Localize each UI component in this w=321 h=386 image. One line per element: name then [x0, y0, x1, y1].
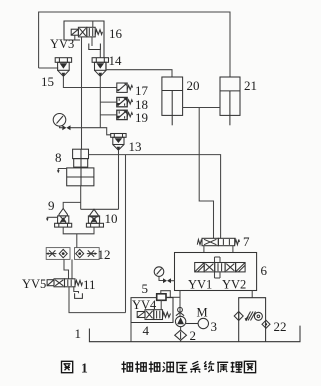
motor shaft — [186, 323, 198, 325]
box around valve 4 — [131, 298, 173, 323]
throttle-check bridge 12 — [46, 248, 99, 260]
svg-text:YV1: YV1 — [188, 278, 212, 292]
tank symbol t11 — [75, 293, 83, 298]
wire YV5 return riser — [125, 155, 127, 313]
svg-text:15: 15 — [41, 74, 54, 89]
wire valves 9-10 bottom rail — [63, 227, 94, 234]
svg-text:3: 3 — [211, 319, 218, 334]
wire cylinders head-side rail — [183, 107, 220, 109]
svg-text:M: M — [197, 306, 208, 320]
svg-text:6: 6 — [261, 263, 268, 278]
wire bridge to valve11 right wall — [71, 259, 73, 278]
wire main line A — [89, 155, 221, 239]
relief valve 17 — [117, 83, 133, 92]
cartridge valve 14 — [92, 58, 108, 77]
svg-text:19: 19 — [135, 110, 148, 125]
svg-text:13: 13 — [129, 139, 142, 154]
wire rail to valve7 — [199, 108, 213, 239]
svg-text:17: 17 — [135, 83, 149, 98]
filter22 check valve — [262, 320, 270, 328]
cartridge valve 15 — [55, 58, 71, 77]
svg-text:22: 22 — [274, 319, 287, 334]
wire pump riser — [179, 291, 181, 317]
cartridge valve 9 — [55, 209, 72, 228]
svg-text:5: 5 — [142, 281, 149, 296]
wire valve15 left feed — [39, 67, 59, 69]
pressure gauge G1 — [53, 114, 66, 127]
relief valve 19 — [117, 110, 133, 119]
cartridge valve 10 — [86, 209, 103, 227]
wire pump suction — [180, 327, 182, 330]
wire bridge feed — [76, 234, 78, 248]
filter unit 22 frame — [239, 298, 266, 342]
pilot box around valve 16 — [64, 21, 104, 58]
svg-text:1: 1 — [81, 361, 88, 376]
wire valve7 to box ports — [203, 246, 205, 253]
directional valve 7 — [197, 238, 239, 245]
check valve right — [76, 249, 84, 257]
wire valve16 top stub — [92, 21, 94, 27]
wire box4 drain to tank — [130, 323, 132, 342]
wire valve9 drain hook — [46, 217, 57, 221]
wire gauge2 stub — [159, 276, 163, 280]
manifold box 6 — [175, 253, 257, 291]
svg-text:14: 14 — [109, 53, 123, 68]
wire gauge line to valve13 — [71, 128, 111, 135]
wire valve19 stub — [100, 114, 117, 116]
tank symbol t16 — [89, 44, 101, 50]
svg-text:10: 10 — [105, 211, 118, 226]
intensifier 8 — [67, 149, 94, 186]
filter 2 — [175, 330, 187, 340]
wire valves 9-10 top rail — [81, 208, 119, 210]
filter22 indicator — [254, 312, 262, 320]
wire cyl20 rod-side port — [106, 62, 172, 77]
solenoid valve 6 — [195, 263, 245, 272]
svg-text:YV3: YV3 — [50, 37, 74, 51]
svg-text:8: 8 — [55, 150, 62, 165]
wire valve6 top stubs — [214, 257, 216, 263]
relief valve 18 — [117, 97, 133, 106]
wire box6 to filter22 — [251, 291, 253, 298]
svg-text:16: 16 — [109, 26, 123, 41]
wire valve13 stem down — [118, 150, 120, 209]
shutoff valve b1 — [62, 125, 70, 130]
wire valve14 out down — [99, 76, 101, 127]
wire intensifier bottom line — [80, 186, 82, 210]
solenoid valve U16 — [71, 27, 102, 37]
wire gauge stub — [60, 126, 63, 128]
orifice right — [87, 250, 98, 256]
wire valve15 out — [63, 76, 116, 87]
wire filter to tank — [180, 340, 182, 341]
wire relay to valve4 — [160, 300, 162, 309]
svg-text:1: 1 — [75, 326, 82, 341]
wire comp5 branch — [166, 296, 180, 298]
wire comp5 pilot loop — [161, 291, 171, 298]
orifice left — [46, 250, 57, 256]
wire valve18 stub — [100, 101, 117, 103]
svg-text:YV5: YV5 — [22, 277, 46, 291]
wire valve11 drain stub — [74, 287, 79, 293]
caption — [62, 361, 256, 372]
wire valve16 T drain stub — [91, 37, 93, 46]
cylinder 21 — [220, 77, 240, 125]
shutoff valve b2 — [163, 278, 171, 283]
svg-text:9: 9 — [48, 198, 55, 213]
wire to box6 — [171, 280, 175, 282]
filter22 arrows — [245, 312, 256, 322]
solenoid valve 4 YV4 — [137, 310, 170, 320]
wire intensifier drain hook — [57, 169, 67, 174]
svg-text:20: 20 — [187, 78, 200, 93]
svg-text:7: 7 — [243, 234, 250, 249]
wire top feed line — [39, 12, 230, 77]
wire valve6 bottom stubs — [214, 272, 216, 278]
wire valve11 out down — [69, 287, 126, 313]
wire valve16 A line down to intensifier — [81, 37, 83, 149]
wire valve14 pilot up — [99, 50, 101, 58]
cylinder 20 — [162, 77, 183, 125]
svg-text:YV4: YV4 — [132, 298, 157, 312]
pressure gauge G2 — [154, 267, 164, 277]
check valve left — [59, 249, 67, 257]
svg-text:21: 21 — [244, 78, 257, 93]
svg-text:11: 11 — [83, 277, 96, 292]
tank 1 — [89, 326, 300, 342]
svg-text:YV2: YV2 — [222, 278, 246, 292]
cartridge valve 13 — [111, 134, 126, 151]
pressure relay 5 — [157, 294, 166, 301]
svg-text:12: 12 — [98, 247, 111, 262]
svg-text:2: 2 — [190, 328, 197, 343]
filter22 diamond — [234, 312, 243, 321]
svg-text:4: 4 — [143, 323, 150, 338]
wire valve9 top branch — [63, 202, 80, 208]
motor M — [198, 318, 208, 328]
arrow riser — [178, 307, 183, 312]
solenoid valve 11 YV5 — [47, 279, 82, 287]
pump 2 group — [175, 316, 185, 326]
wire bridge to valve11 left wall — [64, 259, 69, 278]
wire solenoid3 drain stub — [74, 35, 76, 40]
